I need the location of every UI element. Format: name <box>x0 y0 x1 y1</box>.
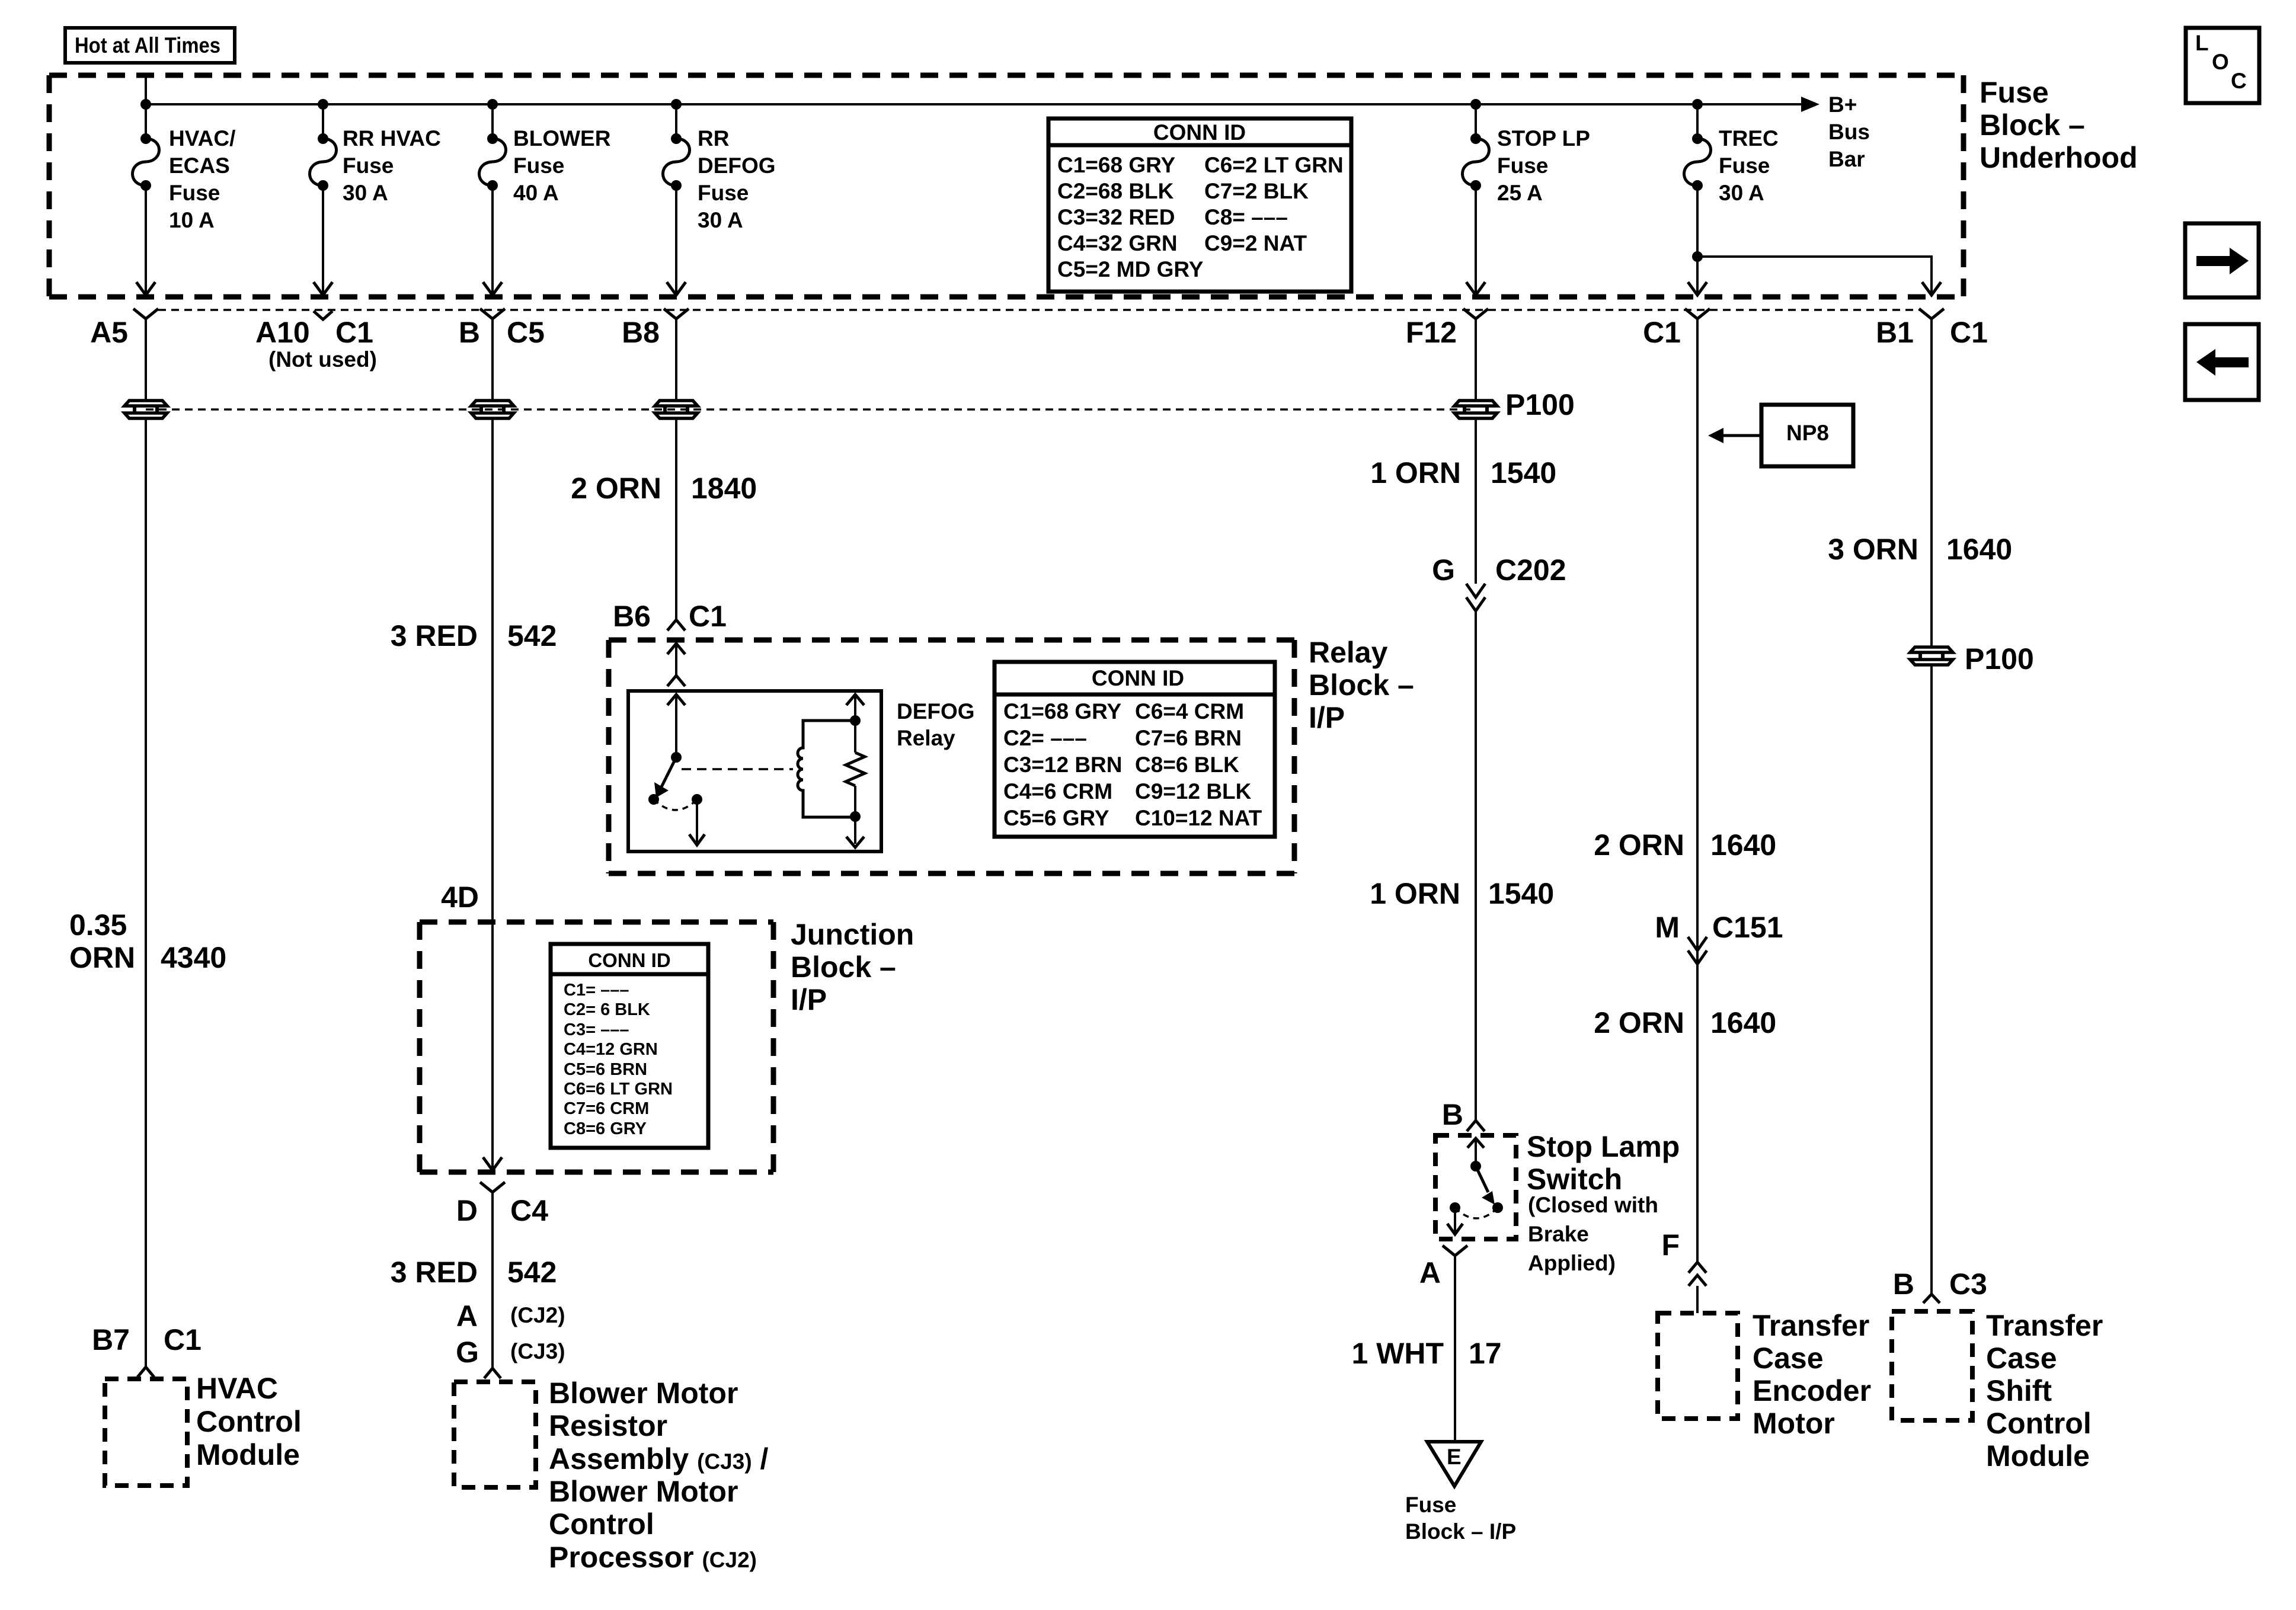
svg-text:B1: B1 <box>1876 316 1914 349</box>
svg-text:HVAC/: HVAC/ <box>169 126 235 151</box>
svg-text:C1: C1 <box>335 316 373 349</box>
svg-text:4340: 4340 <box>161 941 226 974</box>
svg-text:M: M <box>1655 911 1680 944</box>
svg-text:Block –: Block – <box>1309 668 1414 702</box>
svg-text:A: A <box>1419 1256 1441 1289</box>
svg-text:C7=2 BLK: C7=2 BLK <box>1204 179 1309 203</box>
svg-text:17: 17 <box>1469 1337 1502 1370</box>
svg-text:C6=2 LT GRN: C6=2 LT GRN <box>1204 153 1344 177</box>
svg-text:Block –: Block – <box>791 950 896 984</box>
svg-text:Blower Motor: Blower Motor <box>549 1377 738 1410</box>
svg-text:L: L <box>2195 31 2209 55</box>
svg-text:Stop Lamp: Stop Lamp <box>1527 1130 1680 1163</box>
svg-text:Module: Module <box>196 1438 300 1471</box>
svg-text:Fuse: Fuse <box>169 181 220 205</box>
svg-text:F12: F12 <box>1406 316 1457 349</box>
svg-text:1640: 1640 <box>1710 828 1776 862</box>
svg-text:Fuse: Fuse <box>1405 1493 1456 1517</box>
svg-text:C4=12 GRN: C4=12 GRN <box>564 1040 658 1059</box>
svg-text:Encoder: Encoder <box>1753 1374 1871 1407</box>
svg-text:Motor: Motor <box>1753 1407 1835 1440</box>
svg-text:C9=12 BLK: C9=12 BLK <box>1135 779 1252 804</box>
svg-text:C2=68 BLK: C2=68 BLK <box>1057 179 1174 203</box>
svg-text:1640: 1640 <box>1946 533 2012 566</box>
svg-text:RR HVAC: RR HVAC <box>343 126 441 151</box>
svg-text:D: D <box>456 1194 478 1227</box>
svg-text:HVAC: HVAC <box>196 1372 278 1405</box>
svg-text:C8=6 GRY: C8=6 GRY <box>564 1119 647 1138</box>
svg-text:P100: P100 <box>1505 388 1575 421</box>
svg-text:F: F <box>1661 1228 1680 1262</box>
svg-text:I/P: I/P <box>1309 701 1345 734</box>
svg-text:Bar: Bar <box>1828 147 1865 171</box>
svg-text:30 A: 30 A <box>698 208 743 232</box>
svg-text:C202: C202 <box>1495 553 1566 587</box>
svg-text:TREC: TREC <box>1719 126 1779 151</box>
svg-text:O: O <box>2212 50 2229 74</box>
svg-text:B7: B7 <box>92 1323 130 1356</box>
svg-text:CONN ID: CONN ID <box>1153 120 1246 145</box>
svg-text:C6=4 CRM: C6=4 CRM <box>1135 699 1244 724</box>
svg-text:C4=6 CRM: C4=6 CRM <box>1003 779 1112 804</box>
svg-text:2 ORN: 2 ORN <box>1594 828 1684 862</box>
svg-text:C8=6 BLK: C8=6 BLK <box>1135 753 1239 777</box>
svg-text:C7=6 CRM: C7=6 CRM <box>564 1099 649 1118</box>
svg-text:C7=6 BRN: C7=6 BRN <box>1135 726 1242 750</box>
svg-text:B: B <box>1442 1098 1463 1131</box>
svg-text:C1=68 GRY: C1=68 GRY <box>1003 699 1121 724</box>
svg-text:C4=32 GRN: C4=32 GRN <box>1057 231 1178 255</box>
svg-text:G: G <box>1432 553 1455 587</box>
svg-text:10 A: 10 A <box>169 208 215 232</box>
svg-text:Block –: Block – <box>1980 108 2085 142</box>
svg-text:B8: B8 <box>622 316 660 349</box>
svg-text:C1=68 GRY: C1=68 GRY <box>1057 153 1175 177</box>
svg-text:30 A: 30 A <box>1719 181 1764 205</box>
svg-text:Resistor: Resistor <box>549 1409 667 1442</box>
svg-text:Control: Control <box>196 1405 302 1438</box>
svg-text:E: E <box>1447 1445 1462 1469</box>
svg-text:3 RED: 3 RED <box>391 619 478 652</box>
svg-text:3 RED: 3 RED <box>391 1256 478 1289</box>
svg-text:B6: B6 <box>613 600 651 633</box>
svg-text:Blower Motor: Blower Motor <box>549 1475 738 1508</box>
svg-text:542: 542 <box>507 1256 557 1289</box>
svg-text:Transfer: Transfer <box>1986 1309 2103 1342</box>
svg-text:1640: 1640 <box>1710 1006 1776 1039</box>
svg-text:C1= –––: C1= ––– <box>564 981 629 1000</box>
svg-text:Applied): Applied) <box>1528 1251 1616 1275</box>
svg-text:STOP LP: STOP LP <box>1497 126 1590 151</box>
svg-text:C: C <box>2231 69 2247 93</box>
svg-text:C3=32 RED: C3=32 RED <box>1057 205 1175 229</box>
svg-text:1540: 1540 <box>1488 877 1554 910</box>
svg-text:BLOWER: BLOWER <box>513 126 610 151</box>
svg-text:Case: Case <box>1753 1342 1824 1375</box>
svg-text:CONN ID: CONN ID <box>588 949 670 971</box>
svg-text:C1: C1 <box>689 600 727 633</box>
svg-text:C8= –––: C8= ––– <box>1204 205 1288 229</box>
svg-text:Fuse: Fuse <box>513 153 564 178</box>
svg-text:Module: Module <box>1986 1439 2090 1473</box>
svg-text:C1: C1 <box>1643 316 1681 349</box>
svg-text:C5=6 GRY: C5=6 GRY <box>1003 806 1109 830</box>
svg-text:A: A <box>456 1299 478 1333</box>
svg-text:CONN ID: CONN ID <box>1092 666 1184 690</box>
svg-text:1 ORN: 1 ORN <box>1370 456 1461 489</box>
svg-text:B: B <box>459 316 480 349</box>
svg-text:NP8: NP8 <box>1786 421 1829 445</box>
svg-text:1 ORN: 1 ORN <box>1370 877 1460 910</box>
svg-text:RR: RR <box>698 126 729 151</box>
svg-text:I/P: I/P <box>791 983 827 1016</box>
svg-text:3 ORN: 3 ORN <box>1828 533 1918 566</box>
svg-text:Control: Control <box>549 1507 654 1541</box>
svg-text:C3=12 BRN: C3=12 BRN <box>1003 753 1123 777</box>
svg-text:C6=6 LT GRN: C6=6 LT GRN <box>564 1080 673 1099</box>
svg-text:2 ORN: 2 ORN <box>571 472 661 505</box>
svg-text:1 WHT: 1 WHT <box>1351 1337 1444 1370</box>
svg-text:C3= –––: C3= ––– <box>564 1020 629 1039</box>
svg-text:4D: 4D <box>441 881 479 914</box>
svg-text:Fuse: Fuse <box>1497 153 1548 178</box>
svg-text:C10=12 NAT: C10=12 NAT <box>1135 806 1262 830</box>
svg-text:C9=2 NAT: C9=2 NAT <box>1204 231 1307 255</box>
svg-text:Fuse: Fuse <box>1980 76 2049 109</box>
svg-text:Transfer: Transfer <box>1753 1309 1869 1342</box>
svg-text:C1: C1 <box>1950 316 1988 349</box>
svg-text:Junction: Junction <box>791 918 914 951</box>
svg-text:2 ORN: 2 ORN <box>1594 1006 1684 1039</box>
svg-text:(CJ2): (CJ2) <box>510 1303 565 1327</box>
svg-text:C2= –––: C2= ––– <box>1003 726 1087 750</box>
svg-text:Fuse: Fuse <box>698 181 749 205</box>
svg-text:1540: 1540 <box>1491 456 1556 489</box>
svg-text:Underhood: Underhood <box>1980 141 2138 174</box>
svg-text:(Not used): (Not used) <box>268 347 377 372</box>
svg-text:C3: C3 <box>1949 1267 1987 1301</box>
svg-text:Fuse: Fuse <box>343 153 394 178</box>
svg-text:Control: Control <box>1986 1407 2092 1440</box>
svg-text:(CJ3): (CJ3) <box>510 1339 565 1363</box>
svg-text:25 A: 25 A <box>1497 181 1543 205</box>
svg-text:ORN: ORN <box>69 941 135 974</box>
svg-text:C151: C151 <box>1712 911 1783 944</box>
svg-text:G: G <box>456 1336 479 1369</box>
svg-text:A10: A10 <box>255 316 310 349</box>
svg-text:542: 542 <box>507 619 557 652</box>
svg-text:C2= 6 BLK: C2= 6 BLK <box>564 1000 650 1019</box>
svg-text:C5=6 BRN: C5=6 BRN <box>564 1060 647 1079</box>
svg-text:P100: P100 <box>1965 642 2034 676</box>
svg-text:DEFOG: DEFOG <box>897 699 975 724</box>
svg-text:Fuse: Fuse <box>1719 153 1770 178</box>
svg-text:C5=2 MD GRY: C5=2 MD GRY <box>1057 257 1204 281</box>
svg-text:Bus: Bus <box>1828 120 1870 144</box>
svg-text:30 A: 30 A <box>343 181 388 205</box>
svg-text:C4: C4 <box>510 1194 548 1227</box>
svg-text:A5: A5 <box>90 316 128 349</box>
svg-text:Hot at All Times: Hot at All Times <box>75 33 220 57</box>
svg-text:B+: B+ <box>1828 92 1857 117</box>
svg-text:(Closed with: (Closed with <box>1528 1193 1658 1217</box>
svg-text:B: B <box>1893 1267 1914 1301</box>
svg-text:Relay: Relay <box>897 726 955 750</box>
svg-text:0.35: 0.35 <box>69 908 127 942</box>
svg-text:DEFOG: DEFOG <box>698 153 776 178</box>
svg-text:Switch: Switch <box>1527 1163 1622 1196</box>
svg-text:C5: C5 <box>507 316 545 349</box>
svg-text:Block – I/P: Block – I/P <box>1405 1519 1516 1544</box>
svg-text:40 A: 40 A <box>513 181 559 205</box>
svg-text:Shift: Shift <box>1986 1374 2052 1407</box>
svg-text:Relay: Relay <box>1309 636 1388 669</box>
svg-text:1840: 1840 <box>691 472 757 505</box>
svg-text:Brake: Brake <box>1528 1222 1589 1246</box>
svg-text:ECAS: ECAS <box>169 153 230 178</box>
svg-text:Case: Case <box>1986 1342 2057 1375</box>
svg-text:C1: C1 <box>164 1323 202 1356</box>
